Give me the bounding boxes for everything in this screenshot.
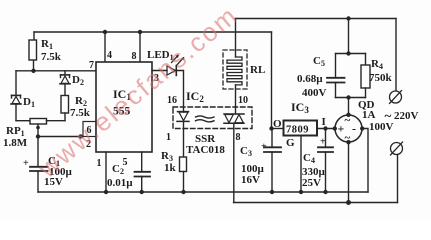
wire loop bottom edge [16,120,30,122]
wire top rail to C5R4 block [348,19,350,54]
svg-text:1: 1 [97,158,102,169]
relay RL dashed box [223,50,247,89]
node pin8 junction [138,30,142,34]
svg-text:C3: C3 [240,145,252,158]
wire block to bridge [348,98,350,116]
svg-text:www.elecfans.com: www.elecfans.com [32,0,244,184]
node R1 bottom junction [31,69,35,73]
wire 220V top rail [236,18,397,20]
svg-text:C4: C4 [303,152,315,165]
wire block top rail [336,53,366,55]
svg-text:IC3: IC3 [291,100,309,115]
resistor R1 [29,40,37,71]
node top rail to dropper junction [346,16,350,20]
svg-text:1.8M: 1.8M [3,137,28,149]
node pin1 ground junction [104,190,108,194]
node G ground junction [299,190,303,194]
resistor R2 [61,96,69,121]
wire Vcc rail to 7809 O [271,32,273,129]
node C4 tap junction [323,126,327,130]
svg-text:8: 8 [236,132,241,143]
potentiometer RP1 [30,119,65,137]
wire ground bus [38,191,368,193]
wire pin4 [104,32,106,62]
svg-text:10: 10 [238,95,248,106]
wire pin3 [152,70,167,72]
LED LED1 [167,55,184,76]
wire triac pin8 down [233,123,235,202]
wire block bottom rail [336,97,366,99]
svg-text:8: 8 [132,51,137,62]
svg-text:D1: D1 [23,96,35,109]
capacitor C1 [30,137,48,193]
svg-text:+: + [261,142,267,153]
capacitor C5 [327,54,345,98]
terminal upper [390,91,402,104]
svg-text:I: I [322,116,326,128]
IC U2 SSR dashed box [173,107,252,129]
diode SSR input LED [177,112,189,157]
svg-text:7809: 7809 [286,125,309,136]
pin 6 box [83,122,96,137]
wire bridge bottom to AC line [348,142,350,203]
capacitor C2 [135,152,151,192]
svg-text:+: + [320,137,326,148]
node bridge terminal dots [333,126,337,130]
wire SSR output AC line [234,202,398,204]
node block bottom junction [346,95,350,99]
svg-text:1k: 1k [164,162,177,174]
node C4 ground junction [323,190,327,194]
node pin6 junction [78,134,82,138]
wire O to 7809 [272,128,284,130]
optocoupler coupling symbol [196,116,215,122]
svg-text:O: O [273,118,282,130]
svg-text:D2: D2 [72,74,84,87]
svg-text:TAC018: TAC018 [186,144,225,156]
svg-text:~: ~ [385,108,392,123]
svg-text:~: ~ [345,115,351,127]
svg-text:7: 7 [89,60,94,71]
svg-text:~: ~ [345,132,351,144]
triac SSR output [224,114,244,123]
svg-text:25V: 25V [302,177,321,189]
wire Vcc top rail [34,31,272,33]
svg-text:R1: R1 [41,38,53,51]
capacitor C3 [264,129,281,193]
wire RL to triac pin10 [235,19,237,58]
node pin4 junction [103,30,107,34]
wire 7809 G to ground [300,136,302,193]
wire bridge right to ground bus [362,129,368,193]
svg-text:IC2: IC2 [186,89,204,104]
svg-text:G: G [286,137,295,149]
wire pin7 horizontal [16,70,96,72]
svg-text:C5: C5 [313,55,325,68]
wire pin1 [105,152,107,192]
node bridge AC junction [346,200,351,205]
svg-text:+: + [338,122,345,136]
IC U3 7809 box [284,121,318,136]
wire 220V rail to terminal [395,19,397,92]
svg-text:4: 4 [107,50,112,61]
svg-text:R4: R4 [371,58,383,71]
svg-text:750k: 750k [369,72,393,84]
wire 7809 I to bridge [317,128,335,130]
IC U1 555 box [96,62,152,152]
bridge rectifier QD [335,115,362,142]
wire LED1 to SSR pin16 [177,71,184,113]
diode D2 zener [60,71,70,96]
svg-text:16: 16 [167,95,177,106]
svg-text:1: 1 [166,132,171,143]
node C3 ground junction [270,190,274,194]
node R3 ground junction [181,190,185,194]
svg-text:7.5k: 7.5k [41,51,62,63]
node O junction [269,126,273,130]
wire RP1 tap to pin2 [38,136,83,138]
svg-text:1A: 1A [362,109,376,121]
resistor R3 [180,157,187,192]
diode D1 [11,71,21,121]
svg-text:0.01µ: 0.01µ [107,177,133,189]
svg-text:0.68µ: 0.68µ [297,73,323,85]
node block top junction [346,51,350,55]
terminal lower [391,142,403,203]
svg-text:+: + [23,158,29,169]
svg-text:220V: 220V [394,110,419,122]
capacitor C4 [318,129,333,193]
node tap junction [36,134,40,138]
wire pin8 [139,32,141,62]
coil RL [227,57,242,85]
svg-text:400V: 400V [302,87,327,99]
node C2 ground junction [140,190,144,194]
svg-text:RL: RL [250,64,265,76]
svg-text:16V: 16V [241,174,260,186]
resistor R4 [361,54,370,98]
wire Vcc rail to R1 [33,32,35,40]
svg-text:-: - [352,122,356,136]
